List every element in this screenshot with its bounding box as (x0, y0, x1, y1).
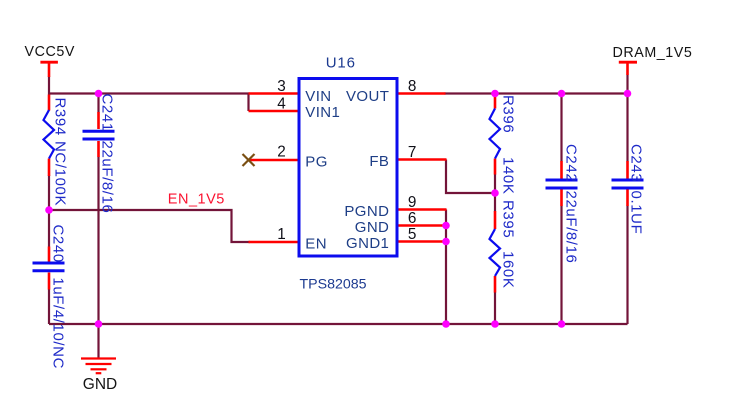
svg-text:VIN1: VIN1 (305, 104, 340, 121)
svg-text:GND: GND (355, 219, 390, 236)
svg-text:PG: PG (305, 153, 327, 170)
svg-text:140K: 140K (500, 157, 517, 194)
svg-text:22uF/8/16: 22uF/8/16 (99, 141, 116, 214)
svg-text:1uF/4/10/NC: 1uF/4/10/NC (50, 277, 67, 369)
svg-text:C243: C243 (628, 144, 645, 182)
svg-text:7: 7 (408, 144, 417, 161)
svg-text:NC/100K: NC/100K (52, 141, 69, 206)
svg-text:2: 2 (277, 144, 286, 161)
svg-text:VCC5V: VCC5V (25, 44, 75, 60)
svg-text:22uF/8/16: 22uF/8/16 (563, 191, 580, 264)
svg-text:EN_1V5: EN_1V5 (168, 192, 225, 208)
svg-text:R396: R396 (500, 95, 517, 133)
svg-text:9: 9 (408, 194, 417, 211)
svg-text:0.1UF: 0.1UF (628, 191, 645, 235)
svg-text:R395: R395 (500, 200, 517, 238)
svg-text:GND1: GND1 (346, 235, 389, 252)
svg-text:DRAM_1V5: DRAM_1V5 (613, 45, 693, 61)
svg-text:GND: GND (83, 376, 117, 393)
svg-text:6: 6 (408, 210, 417, 227)
svg-text:1: 1 (277, 226, 286, 243)
svg-text:C242: C242 (563, 144, 580, 182)
svg-text:U16: U16 (326, 54, 356, 71)
svg-text:C240: C240 (50, 225, 67, 263)
svg-text:8: 8 (408, 78, 417, 95)
svg-text:FB: FB (369, 153, 389, 170)
svg-text:EN: EN (305, 235, 327, 252)
svg-text:160K: 160K (500, 251, 517, 288)
svg-text:C241: C241 (99, 94, 116, 132)
svg-text:VIN: VIN (305, 88, 331, 105)
svg-text:3: 3 (277, 78, 286, 95)
svg-text:PGND: PGND (344, 203, 389, 220)
svg-text:5: 5 (408, 226, 417, 243)
svg-text:VOUT: VOUT (346, 88, 389, 105)
svg-text:TPS82085: TPS82085 (300, 277, 367, 293)
svg-text:4: 4 (277, 96, 286, 113)
svg-text:R394: R394 (52, 98, 69, 136)
